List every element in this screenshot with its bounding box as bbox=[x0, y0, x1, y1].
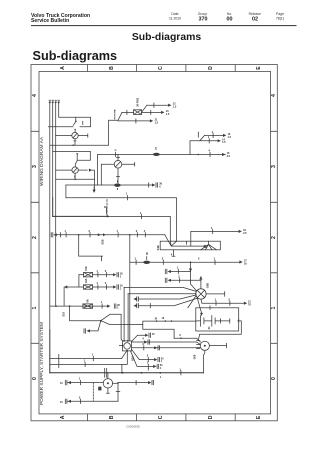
svg-text:A: A bbox=[60, 415, 66, 419]
svg-text:6: 6 bbox=[159, 186, 161, 189]
wire Z to switch S2 bbox=[53, 151, 91, 160]
wire feed y358 bbox=[50, 351, 127, 361]
arrow terminal F1 bbox=[113, 273, 116, 276]
svg-text:31: 31 bbox=[60, 401, 63, 404]
wire riser to starter bbox=[191, 262, 197, 291]
wire K4 bottom stub bbox=[107, 388, 110, 393]
arrow terminal y185 bbox=[152, 183, 155, 186]
wire B1 right bbox=[206, 292, 225, 297]
wire B1 lower-left bbox=[188, 296, 202, 313]
battery cells bbox=[196, 316, 230, 327]
arrow terminal 12 bbox=[168, 104, 171, 107]
svg-text:70: 70 bbox=[248, 304, 251, 307]
generator G08 bbox=[200, 341, 209, 350]
connector on bus bbox=[105, 368, 107, 377]
svg-text:10A: 10A bbox=[85, 278, 88, 283]
svg-text:1.5: 1.5 bbox=[173, 106, 177, 109]
relay coil K1 bbox=[72, 132, 78, 138]
arrow terminal fan row2 bbox=[133, 304, 136, 307]
wire K1 left bbox=[56, 135, 72, 137]
arrow junction K2 right bbox=[89, 169, 92, 172]
svg-text:2.5: 2.5 bbox=[243, 232, 247, 235]
relay coil K2 bbox=[72, 167, 78, 173]
svg-text:1.5: 1.5 bbox=[228, 136, 232, 139]
wire K3 top bbox=[117, 155, 120, 161]
svg-text:34: 34 bbox=[155, 318, 158, 321]
node F3 row bbox=[55, 305, 57, 307]
X10 fan row5 bbox=[131, 351, 154, 369]
svg-text:2: 2 bbox=[148, 367, 150, 371]
svg-text:B: B bbox=[109, 66, 115, 70]
pin number labels bbox=[65, 130, 231, 400]
J1 right fan bbox=[201, 241, 217, 250]
wire K2 left bbox=[56, 169, 72, 171]
wire K1 right bbox=[78, 134, 88, 137]
svg-text:00: 00 bbox=[227, 16, 233, 22]
svg-text:E: E bbox=[256, 66, 262, 70]
wire row B bbox=[68, 399, 119, 403]
G pins bbox=[197, 341, 200, 349]
svg-text:24: 24 bbox=[208, 326, 211, 329]
drawing frame bbox=[31, 65, 277, 421]
arrow terminal 21 bbox=[150, 119, 153, 122]
svg-text:2.5: 2.5 bbox=[227, 155, 231, 158]
svg-text:4: 4 bbox=[271, 94, 277, 97]
node battery row bbox=[156, 320, 158, 322]
svg-text:16: 16 bbox=[244, 262, 247, 265]
wire U loop bbox=[79, 235, 103, 261]
svg-text:1: 1 bbox=[32, 306, 38, 309]
bus thick y216 bbox=[53, 215, 108, 217]
node bus bbox=[198, 154, 200, 156]
node bus bbox=[141, 372, 143, 374]
svg-text:31: 31 bbox=[60, 382, 63, 385]
svg-text:1: 1 bbox=[120, 288, 122, 291]
wire K3 left loop bbox=[101, 164, 114, 185]
wire y197 bbox=[66, 196, 177, 242]
arrow terminal bus end bbox=[222, 153, 225, 156]
node W1 top bbox=[49, 101, 51, 103]
svg-text:16: 16 bbox=[162, 317, 165, 320]
arrow terminal fan row1 bbox=[133, 297, 136, 300]
node y179 bbox=[74, 179, 76, 181]
svg-text:C: C bbox=[158, 66, 164, 70]
wire y329 bbox=[143, 325, 174, 339]
starter node B1 bbox=[196, 289, 206, 299]
svg-text:1: 1 bbox=[120, 275, 122, 278]
battery box bbox=[196, 308, 239, 331]
svg-text:S1B: S1B bbox=[156, 245, 160, 250]
wire W2 bbox=[52, 102, 54, 198]
wire upper branch bbox=[200, 133, 223, 141]
terminal row A bbox=[65, 380, 67, 385]
connector X1 bbox=[114, 184, 121, 187]
svg-text:4: 4 bbox=[142, 336, 144, 340]
svg-text:C0006530: C0006530 bbox=[126, 425, 140, 429]
tick y185 bbox=[148, 183, 150, 187]
wire B1 top bbox=[200, 277, 202, 289]
svg-text:2: 2 bbox=[271, 236, 277, 239]
arrow terminal F3 bbox=[107, 305, 110, 308]
pin ticks above wire tops bbox=[49, 99, 60, 101]
arrow terminal 31 bbox=[84, 329, 86, 333]
wire node K1 to corner bbox=[50, 112, 122, 145]
svg-text:C: C bbox=[158, 415, 164, 419]
wire box edge left bbox=[65, 185, 67, 198]
node W3 top bbox=[55, 101, 57, 103]
svg-text:Service Bulletin: Service Bulletin bbox=[31, 18, 69, 24]
node W2 top bbox=[52, 101, 54, 103]
svg-text:8A: 8A bbox=[86, 299, 89, 302]
svg-text:A: A bbox=[60, 66, 66, 70]
wire cluster lower bbox=[101, 321, 196, 325]
svg-text:B: B bbox=[109, 415, 115, 419]
wire T up branch bbox=[190, 139, 217, 155]
svg-text:1.5: 1.5 bbox=[155, 121, 159, 124]
svg-text:370: 370 bbox=[199, 16, 208, 22]
wire fuse out lower bbox=[142, 110, 161, 114]
terminal row y234 bbox=[51, 233, 53, 237]
svg-text:Date: Date bbox=[171, 12, 178, 16]
arrow terminal mid bbox=[218, 139, 221, 142]
arrow terminal F2 bbox=[113, 285, 116, 288]
svg-text:78(1): 78(1) bbox=[276, 17, 284, 21]
svg-text:WIRING DIAGRAM AA: WIRING DIAGRAM AA bbox=[39, 136, 45, 186]
wire X10 row3 to G bbox=[132, 346, 201, 350]
wire F1-F2 link bbox=[78, 275, 80, 287]
svg-text:G08: G08 bbox=[193, 354, 196, 359]
wire K2 bottom bbox=[74, 173, 76, 179]
svg-text:02: 02 bbox=[252, 16, 258, 22]
wire feed y364 bbox=[50, 351, 127, 373]
svg-text:POWER SUPPLY, STARTER SYSTEM: POWER SUPPLY, STARTER SYSTEM bbox=[39, 322, 45, 405]
grid letters bbox=[32, 66, 277, 420]
inner arrow bbox=[93, 187, 95, 191]
svg-text:1.5: 1.5 bbox=[222, 141, 226, 144]
wire fuse out upper bbox=[142, 103, 168, 112]
wire G bottom bbox=[204, 350, 205, 372]
svg-text:30-TM1: 30-TM1 bbox=[136, 97, 140, 106]
node W4 top bbox=[58, 101, 60, 103]
svg-text:2: 2 bbox=[198, 257, 200, 261]
terminal row y271 bbox=[165, 269, 167, 273]
svg-text:2: 2 bbox=[32, 236, 38, 239]
arrow terminal y303 bbox=[244, 302, 247, 305]
svg-text:27: 27 bbox=[155, 146, 158, 149]
svg-text:E: E bbox=[256, 415, 262, 419]
wire K3 bottom bbox=[117, 168, 120, 183]
arrow terminal upper bbox=[223, 134, 226, 137]
wire y216 thin bbox=[108, 214, 171, 241]
svg-text:D: D bbox=[208, 66, 214, 70]
wire junction cluster bbox=[70, 306, 123, 341]
wire K1 bottom bbox=[74, 139, 76, 145]
wire F2 out bbox=[93, 285, 114, 289]
svg-text:S1B: S1B bbox=[101, 239, 105, 244]
arrow terminal 13 bbox=[161, 111, 164, 114]
X10 fan row1 bbox=[132, 335, 145, 341]
starter relay K4 bbox=[103, 379, 112, 388]
node cluster bbox=[100, 320, 102, 322]
wire bundle risers bbox=[124, 262, 130, 341]
wire y262 bbox=[130, 260, 239, 264]
switch S2 bbox=[75, 153, 78, 167]
svg-text:15: 15 bbox=[152, 333, 155, 336]
X10 fan row4 bbox=[132, 350, 154, 362]
svg-text:36: 36 bbox=[146, 252, 149, 255]
node y216 bbox=[107, 215, 109, 217]
svg-text:1: 1 bbox=[117, 307, 119, 310]
mech link dashed bbox=[92, 383, 94, 402]
wire F3 row bbox=[50, 304, 107, 308]
wire y234 bbox=[56, 233, 164, 237]
node y262 bbox=[190, 262, 192, 264]
svg-text:D: D bbox=[208, 415, 214, 419]
splice y262 bbox=[143, 261, 150, 264]
svg-text:3: 3 bbox=[271, 165, 277, 168]
wire W4 bbox=[59, 102, 91, 127]
wire F1 out bbox=[93, 273, 114, 277]
fuse F1 bbox=[79, 273, 93, 277]
svg-text:1: 1 bbox=[161, 360, 163, 363]
wire to switch S1 bbox=[48, 126, 73, 128]
wire to riser bbox=[92, 170, 94, 191]
battery box right tick bbox=[198, 319, 241, 340]
wire G right bbox=[209, 343, 226, 348]
ground bus thick bbox=[50, 372, 204, 374]
node S1B junctions bbox=[78, 234, 80, 236]
wire y231 bbox=[191, 229, 239, 241]
svg-text:0: 0 bbox=[271, 377, 277, 380]
J1 bottom stub bbox=[172, 250, 175, 256]
svg-text:Sub-diagrams: Sub-diagrams bbox=[33, 49, 118, 63]
svg-text:0: 0 bbox=[32, 377, 38, 380]
svg-text:1: 1 bbox=[160, 367, 162, 370]
relay K3 bbox=[114, 161, 122, 169]
svg-text:6: 6 bbox=[114, 149, 117, 151]
svg-text:1: 1 bbox=[101, 300, 103, 304]
junction box J1 bbox=[160, 241, 220, 250]
svg-text:3: 3 bbox=[32, 165, 38, 168]
tick bus bbox=[209, 152, 211, 156]
svg-text:Sub-diagrams: Sub-diagrams bbox=[132, 32, 202, 43]
wire bundle riser A bbox=[129, 235, 131, 262]
fuse F3 bbox=[83, 304, 93, 308]
wire branch pin 21 bbox=[118, 119, 150, 123]
svg-text:S10: S10 bbox=[61, 311, 65, 316]
wire starter fan f2 bbox=[128, 293, 196, 295]
wire y338 to G bbox=[174, 338, 200, 342]
switch S1B bbox=[98, 233, 106, 236]
wire B1 bottom row bbox=[201, 299, 244, 305]
svg-text:G0B: G0B bbox=[207, 283, 210, 288]
arrow terminal y231 bbox=[239, 230, 242, 233]
splice 27 bbox=[153, 153, 160, 156]
J1 left fan bbox=[165, 235, 205, 246]
wire K4 top bbox=[107, 373, 109, 379]
wire W3 bbox=[55, 102, 57, 306]
switch S1 bbox=[73, 117, 83, 132]
wire K4 right bbox=[113, 382, 118, 384]
fuse F30-TM1 bbox=[122, 110, 142, 115]
wire K2 right bbox=[78, 169, 87, 171]
svg-text:15A: 15A bbox=[85, 266, 88, 271]
wire K3 right bbox=[122, 163, 135, 167]
arrow terminal y262 bbox=[239, 260, 242, 263]
arrowhead down bbox=[93, 190, 96, 193]
arrow junction F2 left bbox=[64, 285, 67, 288]
fuse F2 bbox=[67, 285, 92, 289]
bus B30 bbox=[98, 155, 226, 186]
wire K4 down bbox=[116, 383, 120, 401]
svg-text:1: 1 bbox=[92, 352, 94, 356]
wire K4 arm right bbox=[118, 380, 148, 384]
svg-text:4: 4 bbox=[32, 94, 38, 97]
wire y179 bbox=[56, 178, 95, 180]
wire starter fan f1 bbox=[124, 287, 196, 291]
terminal row y280 bbox=[165, 278, 167, 282]
diagram titles (rotated) bbox=[39, 136, 45, 405]
svg-text:Page: Page bbox=[276, 12, 284, 16]
wire X10 row2 to G bbox=[132, 342, 201, 344]
pin 6 tick bbox=[115, 152, 117, 156]
ignition switch X10 bbox=[119, 340, 131, 351]
header bbox=[31, 12, 297, 63]
wire W1 (battery feed, left bus) bbox=[49, 102, 51, 330]
wire row A bbox=[68, 380, 104, 384]
svg-text:1: 1 bbox=[271, 306, 277, 309]
mech link dashes bbox=[106, 200, 108, 216]
svg-text:1: 1 bbox=[160, 376, 162, 379]
label box 30 bbox=[98, 387, 101, 391]
svg-text:11.2010: 11.2010 bbox=[169, 17, 181, 21]
svg-text:1.5: 1.5 bbox=[166, 113, 170, 116]
svg-text:2: 2 bbox=[179, 333, 181, 337]
wire y185 bbox=[66, 184, 152, 186]
wire F2 riser bbox=[63, 287, 65, 306]
